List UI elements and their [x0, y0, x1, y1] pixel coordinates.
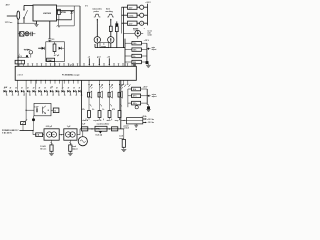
svg-text:2.2 k: 2.2 k — [133, 103, 137, 105]
transformer T2 — [64, 129, 77, 140]
tick t3 — [111, 119, 113, 121]
tick t1 — [85, 119, 87, 121]
wire left rail below — [81, 80, 83, 129]
ground G-A — [146, 64, 151, 66]
wire aux out — [51, 109, 53, 111]
pin arrow +12 — [108, 58, 110, 65]
oscillator Y1 — [95, 126, 107, 131]
lamp DS1 — [137, 6, 140, 8]
pin T19 — [118, 64, 120, 67]
svg-text:1 µF: 1 µF — [82, 124, 85, 126]
svg-text:1 k: 1 k — [102, 109, 104, 111]
diode D4 — [133, 64, 135, 66]
pin T21 — [127, 64, 129, 67]
wire pot rail 2 — [146, 89, 148, 105]
wire T2 out — [77, 134, 80, 136]
capacitor C3 0.1uF — [49, 21, 51, 39]
svg-text:0.1µF: 0.1µF — [34, 106, 38, 108]
svg-text:probe: probe — [94, 11, 99, 13]
label 60Hz — [57, 26, 60, 28]
pin B2 — [35, 80, 37, 83]
svg-text:+15 V dc: +15 V dc — [147, 119, 154, 121]
svg-text:4.7 µF: 4.7 µF — [54, 54, 60, 57]
wire probe A — [96, 19, 98, 23]
pin B11 — [77, 80, 79, 83]
svg-text:5 Vdc: 5 Vdc — [129, 15, 134, 17]
resistor R13 — [69, 140, 71, 145]
emitter arrow — [99, 132, 102, 134]
generator G1 — [94, 37, 100, 43]
svg-text:amps: amps — [119, 138, 123, 140]
svg-text:+15 V: +15 V — [143, 86, 149, 88]
triac Q1 — [47, 58, 55, 61]
pin T7 — [45, 64, 47, 67]
node J2 — [17, 57, 18, 58]
neon lamp NE1 — [25, 32, 29, 36]
snubber box — [34, 103, 51, 115]
resistor R10 2.2 k — [128, 102, 132, 104]
svg-text:2 4 6 8: 2 4 6 8 — [18, 74, 23, 77]
pin arrow +5 — [88, 58, 90, 65]
svg-text:gain: gain — [152, 47, 155, 49]
transformer T1 — [44, 129, 59, 140]
wire triac to bus — [54, 62, 56, 67]
wire left rail — [17, 19, 19, 66]
svg-text:LM7805: LM7805 — [43, 13, 52, 15]
wire right drop — [79, 6, 81, 66]
resistor R5 10 k — [125, 49, 132, 51]
capacitor C6 — [35, 108, 37, 112]
wire bottom right drop — [123, 129, 125, 140]
wire CH3 — [109, 97, 111, 111]
wire to switch — [23, 18, 25, 23]
svg-text:level adj: level adj — [95, 135, 102, 137]
ground G-F — [68, 152, 73, 154]
pin arrow CH2 — [99, 80, 101, 84]
node N1 — [91, 128, 92, 129]
wire +12V rail — [147, 4, 149, 26]
ground G-B — [146, 109, 150, 111]
node T1T2 — [61, 134, 62, 135]
wire CH4 — [119, 97, 121, 111]
wire drop right — [61, 80, 63, 89]
tick t2 — [102, 119, 104, 121]
wire left rail top-right — [123, 7, 125, 47]
main board U2 — [15, 66, 136, 80]
pin T13 — [72, 64, 74, 67]
diode D3 gate — [38, 47, 41, 49]
resistor R8 10 k — [128, 88, 132, 90]
pin B7 — [59, 80, 61, 83]
pin T4 — [32, 64, 34, 67]
pin T1 — [18, 64, 20, 67]
svg-text:switch: switch — [124, 127, 129, 130]
wiper arrow — [147, 48, 149, 50]
wire drop left — [17, 80, 19, 89]
pin arrow CH3 — [109, 80, 111, 84]
ground G-D — [123, 147, 125, 149]
node Naux — [26, 110, 27, 111]
svg-text:+5: +5 — [88, 56, 90, 58]
pin B4 — [45, 80, 47, 83]
svg-text:marking: marking — [105, 11, 113, 13]
waveform glyph A — [94, 14, 101, 17]
ground G-E — [49, 152, 54, 154]
wire scope rail — [95, 47, 125, 49]
svg-text:1k: 1k — [54, 110, 56, 112]
subcircuit box — [46, 42, 65, 62]
pin B3 — [40, 80, 42, 83]
wire link up — [73, 6, 75, 26]
wire pot rail — [146, 43, 148, 62]
pin T12 — [68, 64, 70, 67]
resistor R11 — [122, 139, 125, 147]
pin T18 — [113, 64, 115, 67]
node N2 — [109, 128, 110, 129]
wiper arrow 2 — [147, 95, 149, 97]
capacitor C4 — [116, 21, 118, 23]
wire left rail top-right 2 — [121, 7, 123, 33]
svg-text:to scope: to scope — [72, 74, 80, 77]
varistor RV1 — [20, 32, 24, 36]
ground G-C — [135, 124, 137, 125]
svg-text:1 k: 1 k — [133, 56, 135, 58]
svg-text:−15 V dc: −15 V dc — [147, 122, 154, 124]
transistor Q6 — [42, 107, 44, 114]
switch S1 — [24, 10, 27, 17]
wire +V rail — [57, 10, 75, 12]
svg-text:out: out — [123, 119, 126, 122]
zener D1 — [71, 10, 73, 13]
regulator U1 — [33, 5, 57, 21]
attenuator AT1 — [112, 127, 118, 131]
svg-text:amp: amp — [115, 120, 118, 122]
svg-text:0.1: 0.1 — [52, 39, 55, 41]
label to scope — [100, 43, 109, 48]
svg-text:0.33 µF: 0.33 µF — [46, 126, 53, 128]
resistor R9 4.7 k — [128, 95, 132, 97]
svg-text:10 k: 10 k — [133, 43, 136, 45]
svg-text:220: 220 — [133, 62, 136, 64]
pin arrow CH4 — [119, 80, 121, 84]
resistor R6 1 k — [125, 55, 132, 57]
arrow -15 — [143, 121, 147, 123]
scope O1 — [82, 131, 84, 137]
pin T15 — [83, 64, 85, 67]
node N3 — [32, 130, 33, 131]
pin T6 — [41, 64, 43, 67]
pin B6 — [54, 80, 56, 83]
wire T1-T2 — [59, 134, 64, 136]
trimmer VR1 — [135, 106, 138, 109]
pin arrow RA — [123, 80, 125, 83]
pin T9 — [54, 64, 56, 67]
svg-text:atten: atten — [107, 119, 111, 122]
wire aux feed — [26, 109, 34, 111]
svg-text:10 k: 10 k — [133, 89, 137, 91]
wire right mid rail — [124, 39, 126, 67]
relay K3 — [122, 22, 128, 24]
speaker LS1 — [88, 85, 90, 92]
lamp DS2 — [137, 14, 140, 16]
node Naux2 — [48, 110, 49, 111]
wire drop mid — [25, 80, 27, 89]
chassis ground — [36, 21, 38, 24]
zener D2 — [59, 47, 62, 50]
svg-text:chan A: chan A — [82, 119, 88, 122]
pin T14 — [77, 64, 79, 67]
wire aux drop — [33, 116, 35, 119]
wire AC input — [7, 15, 17, 17]
svg-text:micro: micro — [152, 94, 156, 96]
svg-text:117 V ac: 117 V ac — [5, 22, 12, 24]
pin B1 — [30, 80, 32, 83]
pin B10 — [72, 80, 74, 83]
wire line in — [20, 130, 34, 132]
relay K1 — [122, 6, 128, 8]
fuse F2 — [36, 133, 43, 137]
resistor R7 220 — [125, 61, 132, 63]
capacitor C8 — [32, 118, 35, 121]
wire lower link — [58, 20, 60, 26]
waveform glyph B — [107, 14, 114, 17]
pin T8 — [50, 64, 52, 67]
resistor R2 — [53, 44, 56, 52]
wire meter stub — [137, 36, 139, 38]
svg-text:TRIAC: TRIAC — [47, 59, 53, 62]
wire into T1 — [43, 134, 44, 136]
wire CH1 — [88, 97, 90, 111]
svg-text:+12 V: +12 V — [145, 2, 151, 4]
pin T20 — [122, 64, 124, 67]
resistor R12 — [51, 140, 53, 145]
resistor R3 — [109, 26, 112, 31]
svg-text:crystal filt: crystal filt — [93, 119, 101, 122]
wire drop mid2 — [35, 80, 37, 89]
wire to regulator — [24, 4, 33, 6]
pin T11 — [63, 64, 65, 67]
node J1 — [17, 23, 18, 24]
generator G2 — [108, 37, 114, 43]
capacitor C0 — [30, 32, 32, 36]
pin B9 — [68, 80, 70, 83]
wire jog — [32, 131, 34, 135]
tick t4 — [119, 119, 121, 121]
svg-text:+ 15 V: + 15 V — [144, 40, 150, 42]
wire return rail — [57, 19, 72, 21]
svg-text:2 k: 2 k — [92, 109, 94, 111]
wire CH2 — [99, 97, 101, 111]
wire rail to U3 — [121, 120, 127, 122]
svg-text:adjust: adjust — [72, 148, 78, 151]
capacitor C2 — [58, 9, 61, 14]
pin arrow RB — [127, 80, 129, 83]
svg-text:10 turn: 10 turn — [40, 148, 46, 151]
wire stack rail — [127, 89, 129, 107]
filter FL2 — [82, 127, 88, 131]
resistor R4 10 k — [125, 42, 132, 44]
pin T17 — [103, 64, 105, 67]
wire probe B — [110, 19, 112, 23]
capacitor C7 — [147, 107, 149, 109]
pin T16 — [93, 64, 95, 67]
svg-text:10 k: 10 k — [133, 49, 136, 51]
pin T22 — [131, 64, 133, 67]
svg-text:+12: +12 — [107, 56, 110, 58]
svg-text:4.7 k: 4.7 k — [133, 95, 137, 98]
pin B5 — [49, 80, 51, 83]
meter M1 — [137, 22, 140, 24]
pin T2 — [23, 64, 25, 67]
wire return — [18, 22, 37, 24]
wire bottom bus — [80, 128, 124, 130]
supply box U3 — [127, 118, 143, 124]
relay K2 — [122, 14, 128, 16]
pin arrow gnd — [98, 58, 100, 65]
pin T10 — [59, 64, 61, 67]
resistor R4 — [115, 27, 118, 32]
speaker LS2 — [99, 85, 101, 92]
pin T3 — [27, 64, 29, 67]
fuse F1 — [17, 11, 20, 19]
connector P1 — [15, 60, 24, 64]
capacitor C5 — [146, 61, 148, 63]
switch S2 — [21, 122, 26, 125]
speaker LS4 — [119, 85, 121, 92]
svg-text:meter: meter — [147, 33, 152, 36]
pin arrow CH1 — [88, 80, 90, 84]
pin B8 — [63, 80, 65, 83]
resistor Raux — [53, 108, 59, 113]
svg-text:V AC 60 Hz: V AC 60 Hz — [2, 132, 12, 135]
speaker LS3 — [109, 85, 111, 92]
wire right rail below — [120, 80, 122, 129]
pin T5 — [36, 64, 38, 67]
arrow +15 — [143, 118, 147, 120]
